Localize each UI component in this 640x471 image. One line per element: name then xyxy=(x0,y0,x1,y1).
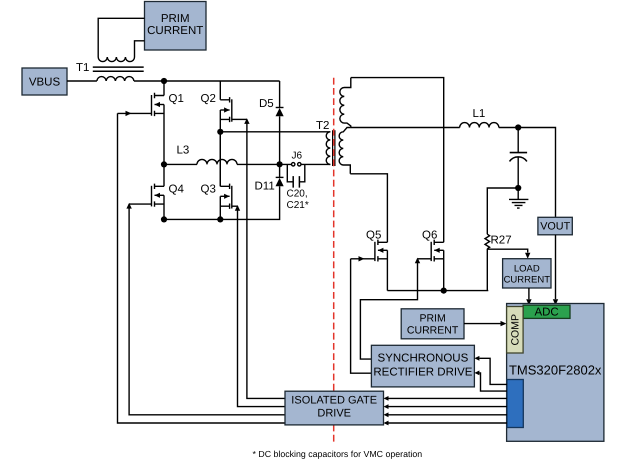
node top rail / Q1 drain junction xyxy=(161,78,167,84)
svg-text:L1: L1 xyxy=(473,108,486,120)
wire T2 secondary top lead to Q6 drain xyxy=(351,78,444,243)
wire Q4 gate drive lead xyxy=(129,203,151,205)
svg-text:* DC blocking capacitors for V: * DC blocking capacitors for VMC operati… xyxy=(253,449,423,459)
svg-text:C21*: C21* xyxy=(287,200,309,211)
wire Q2 gate drive lead xyxy=(232,118,247,120)
svg-text:Q4: Q4 xyxy=(169,184,185,196)
block PRIM CURRENT (secondary-side sense) xyxy=(401,309,464,339)
svg-text:DRIVE: DRIVE xyxy=(317,407,351,419)
transformer T2 primary winding xyxy=(326,132,330,165)
diode D11 xyxy=(255,164,284,192)
svg-text:SYNCHRONOUS: SYNCHRONOUS xyxy=(378,353,469,365)
transformer T2 secondary upper winding xyxy=(340,78,351,128)
wire J6 to T2 primary bottom xyxy=(301,163,330,165)
wire PWM to ISOLATED GATE DRIVE line 2 (arrow) xyxy=(389,406,508,408)
capacitor output (polarized) xyxy=(510,128,528,189)
wire PRIM CURRENT to COMP (arrow) xyxy=(464,323,501,325)
transistor Q1 xyxy=(152,81,184,164)
wire Q2 gate drive vertical to ISOLATED GATE DRIVE xyxy=(247,119,285,398)
block TMS320F2802x xyxy=(507,304,604,442)
svg-text:Q3: Q3 xyxy=(201,184,216,196)
block ADC xyxy=(523,305,570,318)
wire Q2/Q3 leg node to T2 primary top xyxy=(220,131,330,133)
wire SR source rail xyxy=(387,290,488,292)
wire Q2 source to Q3 drain xyxy=(219,132,221,187)
wire LOAD CURRENT to ADC (arrow) xyxy=(528,288,530,299)
transformer T2 core xyxy=(333,130,335,166)
svg-text:PRIM: PRIM xyxy=(161,13,190,25)
svg-text:Q2: Q2 xyxy=(201,93,216,105)
transformer T1 core xyxy=(93,67,144,71)
wire T2 center tap to L1 xyxy=(351,127,460,129)
wire Q3 gate drive lead xyxy=(232,205,238,207)
svg-text:CURRENT: CURRENT xyxy=(147,25,203,37)
svg-text:ADC: ADC xyxy=(534,307,558,319)
wire bottom rail (Q4/Q3 sources to D11) xyxy=(164,186,280,219)
svg-text:D5: D5 xyxy=(259,98,274,110)
svg-text:Q6: Q6 xyxy=(422,230,437,242)
svg-text:C20,: C20, xyxy=(287,189,308,200)
wire T1 secondary right lead to PRIM CURRENT box xyxy=(135,41,145,57)
isolation barrier (red dashed line) xyxy=(333,78,335,445)
wire PWM to ISOLATED GATE DRIVE line 3 (arrow) xyxy=(389,414,508,416)
svg-text:J6: J6 xyxy=(292,151,303,162)
wire L3 to J6 junction xyxy=(237,163,292,165)
svg-text:ISOLATED GATE: ISOLATED GATE xyxy=(291,394,377,406)
svg-text:TMS320F2802x: TMS320F2802x xyxy=(509,363,602,378)
transformer T1 primary winding xyxy=(97,77,134,81)
wire Q6 gate drive lead xyxy=(418,258,432,260)
svg-text:CURRENT: CURRENT xyxy=(504,275,551,286)
block VOUT xyxy=(538,217,572,235)
wire Q5 gate drive lead with arrow xyxy=(351,258,375,260)
wire R27 bottom to SR source rail xyxy=(486,249,488,291)
svg-text:D11: D11 xyxy=(255,181,275,193)
block PWM (blue) xyxy=(507,380,523,428)
node A (Q1 source / Q4 drain / L3) xyxy=(161,161,167,167)
wire Q1 gate drive lead with arrow xyxy=(118,112,152,114)
ground symbol xyxy=(509,188,528,208)
svg-text:Q5: Q5 xyxy=(366,230,381,242)
wire Q5 gate drive to SYNCHRONOUS RECTIFIER DRIVE xyxy=(351,259,372,373)
block VBUS xyxy=(22,68,67,95)
svg-text:Q1: Q1 xyxy=(169,93,184,105)
wire Q6 gate drive to SYNCHRONOUS RECTIFIER DRIVE xyxy=(360,259,417,359)
transistor Q5 xyxy=(366,230,387,291)
svg-text:PRIM: PRIM xyxy=(419,313,445,325)
connector J6 xyxy=(292,151,303,167)
block COMP xyxy=(507,307,523,354)
wire Q3 gate drive vertical to ISOLATED GATE DRIVE xyxy=(238,206,286,406)
wire R27 bottom to LOAD CURRENT (arrow) xyxy=(487,249,527,252)
node Q2 source / T2 primary top junction xyxy=(217,129,223,135)
wire ground node to R27 xyxy=(487,188,518,234)
svg-text:L3: L3 xyxy=(177,145,190,157)
transistor Q6 xyxy=(422,230,444,291)
transistor Q4 xyxy=(152,164,185,219)
wire PWM to ISOLATED GATE DRIVE line 1 (arrow) xyxy=(389,397,508,399)
svg-text:CURRENT: CURRENT xyxy=(407,325,459,337)
inductor L1 xyxy=(460,123,499,128)
wire VOUT to ADC (arrow) xyxy=(555,235,557,299)
transistor Q2 (mirrored) xyxy=(201,81,232,132)
wire Q1 gate drive vertical to ISOLATED GATE DRIVE xyxy=(118,113,286,423)
node bottom rail Q4 xyxy=(161,216,167,222)
svg-text:T1: T1 xyxy=(76,62,89,74)
block SYNCHRONOUS RECTIFIER DRIVE xyxy=(371,345,474,387)
svg-text:RECTIFIER DRIVE: RECTIFIER DRIVE xyxy=(373,366,472,378)
diode D5 xyxy=(259,81,284,164)
wire top rail (T1 to Q1, Q2, D5) xyxy=(134,80,280,82)
node bottom rail Q3 xyxy=(217,216,223,222)
wire VBUS to T1 primary xyxy=(67,80,97,82)
svg-text:COMP: COMP xyxy=(510,314,522,346)
svg-text:VOUT: VOUT xyxy=(540,220,570,232)
wire PWM to SYNCHRONOUS RECTIFIER DRIVE (lower, arrow) xyxy=(479,373,507,391)
transformer T2 secondary lower winding xyxy=(339,128,351,174)
wire T1 secondary left lead to PRIM CURRENT box xyxy=(98,18,144,57)
resistor R27 xyxy=(485,234,512,248)
wire PWM to SYNCHRONOUS RECTIFIER DRIVE (upper, arrow) xyxy=(479,358,507,384)
inductor L3 xyxy=(197,159,237,164)
svg-text:LOAD: LOAD xyxy=(514,264,540,275)
block PRIM CURRENT (primary current sense, top) xyxy=(145,2,207,51)
wire L1 to output node and VOUT branch xyxy=(499,128,556,218)
node output (L1 / C / VOUT) xyxy=(515,124,521,130)
wire node A to L3 xyxy=(164,163,197,165)
node output ground junction xyxy=(515,185,521,191)
capacitor C20/C21 (DC blocking) xyxy=(287,164,309,211)
svg-text:VBUS: VBUS xyxy=(29,77,61,89)
node SR source rail / Q6 xyxy=(441,288,447,294)
wire Q4 gate drive vertical to ISOLATED GATE DRIVE xyxy=(129,204,285,415)
wire PWM to ISOLATED GATE DRIVE line 4 (arrow) xyxy=(389,422,508,424)
block ISOLATED GATE DRIVE xyxy=(285,391,384,425)
wire T2 secondary bottom lead to Q5 drain xyxy=(350,174,387,243)
transistor Q3 (mirrored) xyxy=(201,132,232,220)
node D5 / L3 / J6 junction xyxy=(277,161,283,167)
block LOAD CURRENT xyxy=(503,259,551,288)
svg-text:T2: T2 xyxy=(316,120,329,132)
svg-text:R27: R27 xyxy=(491,235,512,247)
transformer T1 secondary winding xyxy=(98,57,134,62)
